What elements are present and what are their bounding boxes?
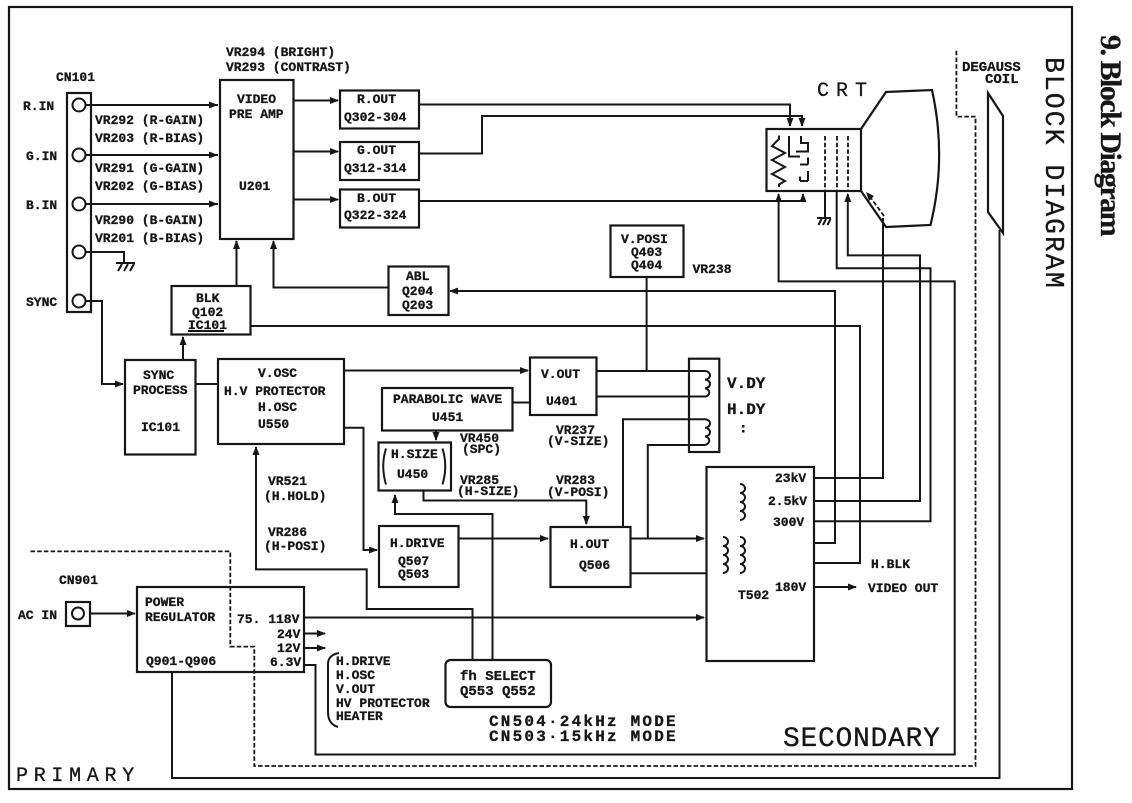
amplifier R.OUT Q302-304 [340,91,419,129]
wire V.OSC to V.OUT [344,367,529,374]
svg-text:23kV: 23kV [775,471,806,486]
CRT grid resistor [772,136,785,188]
svg-text:Q553 Q552: Q553 Q552 [460,684,536,700]
svg-text:75. 118V: 75. 118V [237,612,300,627]
block V.OUT U401 [530,358,597,416]
wire H.SIZE to H.OUT [424,491,590,526]
terminal G.IN [26,149,86,165]
wire 23kV to CRT anode [814,218,883,478]
wire 118V to T502 [304,614,705,621]
svg-text:180V: 180V [775,580,806,595]
svg-text:U451: U451 [432,410,463,425]
terminal SYNC [26,295,86,311]
svg-text:CRT: CRT [817,80,874,103]
wire R.IN to U201 [86,102,219,109]
svg-text:ABL: ABL [406,269,430,284]
svg-text:Q302-304: Q302-304 [344,110,407,125]
svg-text:Q503: Q503 [398,567,429,582]
wire SYNC PROCESS to BLK [180,336,187,360]
svg-text:H.DRIVE: H.DRIVE [390,536,445,551]
wire VIDEO OUT [814,584,857,591]
svg-text:H.BLK: H.BLK [871,557,910,572]
block PARABOLIC WAVE U451 [382,388,513,431]
coil H.DY [705,419,710,445]
svg-text:PRE AMP: PRE AMP [229,107,284,122]
wire 300V to CRT [814,191,931,521]
block H.DRIVE Q507 Q503 [379,526,459,587]
svg-text:fh SELECT: fh SELECT [460,669,536,685]
wire H.DY to H.OUT output wire [648,445,705,539]
coil V.DY [705,371,710,397]
svg-text:REGULATOR: REGULATOR [145,610,215,625]
wire U451 to H.SIZE [433,431,440,442]
transformer T502 [707,467,815,661]
svg-text:COIL: COIL [985,72,1019,88]
svg-text:H.OUT: H.OUT [570,537,609,552]
wire BLK to U201 [233,240,240,286]
CRT neck [767,129,862,191]
svg-text:2.5kV: 2.5kV [768,494,807,509]
wire AC IN to POWER REGULATOR [90,610,136,617]
wire V.OSC to H.DRIVE [344,428,378,554]
wire V.OUT to V.DY lower [597,396,706,398]
terminal R.IN [23,99,86,115]
wire SYNC to SYNC PROCESS [86,301,125,388]
connector CN101 [56,70,95,312]
connector CN901 AC IN [18,602,90,626]
svg-text:R.IN: R.IN [23,99,54,114]
CRT gun electrodes [789,136,808,181]
svg-text:VIDEO OUT: VIDEO OUT [868,581,938,596]
svg-text:U450: U450 [397,467,428,482]
block H.SIZE U450 [379,443,452,491]
svg-text:Q322-324: Q322-324 [344,208,407,223]
svg-text:BLOCK DIAGRAM: BLOCK DIAGRAM [1038,57,1068,290]
block SYNC PROCESS IC101 [125,360,196,455]
wire ABL to U201 [270,240,389,288]
svg-text:300V: 300V [773,515,804,530]
svg-text:VR286: VR286 [268,525,307,540]
svg-text:VR292 (R-GAIN): VR292 (R-GAIN) [95,113,204,128]
svg-text:BLK: BLK [196,291,220,306]
wire G.IN to U201 [86,152,219,159]
block BLK Q102 IC101 [172,286,251,335]
wire G.OUT to CRT cathode [419,116,806,154]
svg-text:H.OSC: H.OSC [258,400,297,415]
svg-text:9. Block Diagram: 9. Block Diagram [1094,35,1127,237]
wire 6.3V heater line [304,193,955,755]
wire V.OUT to V.DY upper [597,370,706,372]
svg-text:B.IN: B.IN [26,198,57,213]
coil T502 secondary A [723,537,728,573]
svg-text:CN901: CN901 [59,573,98,588]
block POWER REGULATOR Q901-Q906 [137,587,304,672]
svg-text:Q901-Q906: Q901-Q906 [146,654,216,669]
svg-text:VR294 (BRIGHT): VR294 (BRIGHT) [226,45,335,60]
wire B.IN to U201 [86,201,219,208]
block V.POSI Q403 Q404 [611,226,684,278]
ground symbol [116,263,135,271]
wire H.OUT to T502 lower [631,572,707,574]
svg-text:(H.HOLD): (H.HOLD) [264,489,326,504]
svg-text:V.OSC: V.OSC [258,366,297,381]
svg-text:PARABOLIC WAVE: PARABOLIC WAVE [393,392,502,407]
wire 12V [304,645,326,652]
svg-text:24V: 24V [277,627,301,642]
svg-text:PRIMARY: PRIMARY [16,765,140,788]
block V.OSC H.V PROTECTOR H.OSC U550 [218,359,344,444]
amplifier B.OUT Q322-324 [340,190,419,228]
svg-text:H.SIZE: H.SIZE [391,447,438,462]
svg-text:SYNC: SYNC [143,368,174,383]
anode arrow [866,192,884,216]
svg-text:POWER: POWER [145,595,184,610]
CRT funnel and face [861,90,939,227]
coil T502 secondary B [740,537,745,573]
wire H.OUT to T502 upper [631,535,706,542]
svg-text:U550: U550 [258,417,289,432]
wire 24V [304,630,326,637]
svg-text:Q404: Q404 [631,258,662,273]
svg-text:H.OSC: H.OSC [336,668,375,683]
svg-text:HEATER: HEATER [336,709,383,724]
svg-text:CN101: CN101 [56,70,95,85]
svg-text:SECONDARY: SECONDARY [783,724,941,755]
wire 2.5kV to CRT [814,193,920,501]
wire R.OUT to CRT cathode [419,105,794,128]
block ABL Q204 Q203 [389,267,449,316]
svg-text:V.DY: V.DY [727,375,766,393]
wire V.POSI to yoke wire [646,277,648,371]
svg-text:Q203: Q203 [402,298,433,313]
dashed primary boundary [31,49,976,766]
svg-text:(H-SIZE): (H-SIZE) [457,484,519,499]
svg-text:(V-SIZE): (V-SIZE) [547,434,609,449]
svg-text:G.OUT: G.OUT [357,143,396,158]
svg-text:V.OUT: V.OUT [541,367,580,382]
svg-text:VR293 (CONTRAST): VR293 (CONTRAST) [226,60,351,75]
svg-text:CN503·15kHz MODE: CN503·15kHz MODE [489,728,678,746]
deflection yoke core [689,359,719,452]
svg-text:H.DY: H.DY [727,401,766,419]
block H.OUT Q506 [551,527,631,587]
amplifier G.OUT Q312-314 [340,142,419,180]
svg-text:VIDEO: VIDEO [237,92,276,107]
svg-text:V.OUT: V.OUT [336,682,375,697]
svg-text:12V: 12V [277,641,301,656]
CRT ground [817,191,831,225]
svg-text:IC101: IC101 [141,420,180,435]
wire U201 to G.OUT [294,148,340,155]
svg-text:B.OUT: B.OUT [357,191,396,206]
terminal spare [73,246,86,259]
wire fh SELECT to V.OSC [253,446,473,660]
op-amp U201 VIDEO PRE AMP [220,80,294,239]
wire U201 to B.OUT [294,196,340,203]
wire U201 to R.OUT [294,97,340,104]
svg-text:(H-POSI): (H-POSI) [264,539,326,554]
wire U451 to V.OUT [513,402,531,404]
wire fh SELECT to H.SIZE [392,494,493,660]
svg-text:(SPC): (SPC) [462,442,501,457]
svg-text:VR202 (G-BIAS): VR202 (G-BIAS) [95,179,204,194]
svg-text:PROCESS: PROCESS [133,383,188,398]
wire BLK to H.BLK [251,326,861,563]
svg-text:VR201 (B-BIAS): VR201 (B-BIAS) [95,231,204,246]
coil T502 primary [740,484,745,520]
brace supply list [328,653,339,727]
svg-text:H.DRIVE: H.DRIVE [336,654,391,669]
wire B.OUT to CRT cathode [419,193,807,202]
svg-text:VR203 (R-BIAS): VR203 (R-BIAS) [95,131,204,146]
svg-text:Q204: Q204 [402,284,433,299]
dot [742,425,745,428]
svg-text:U201: U201 [239,179,270,194]
svg-text:Q312-314: Q312-314 [344,161,407,176]
svg-text:VR238: VR238 [693,262,732,277]
wire H.DY to H.OUT top [623,419,705,527]
svg-text:H.V PROTECTOR: H.V PROTECTOR [224,384,326,399]
svg-text:G.IN: G.IN [26,149,57,164]
CRT heater pins dashed [824,136,826,190]
svg-text:6.3V: 6.3V [270,655,301,670]
svg-text:(V-POSI): (V-POSI) [547,485,609,500]
svg-text:R.OUT: R.OUT [357,92,396,107]
wire flyback to ABL [449,288,835,544]
svg-text:U401: U401 [546,394,577,409]
block fh SELECT Q553 Q552 [446,660,552,707]
wire SYNC PROCESS to V.OSC [196,383,219,385]
wire primary to degauss [172,230,1000,778]
terminal B.IN [26,198,86,214]
svg-text:Q506: Q506 [579,558,610,573]
svg-text:T502: T502 [738,588,769,603]
svg-text:VR521: VR521 [268,474,307,489]
wire spare to ground [86,252,125,262]
svg-text:SYNC: SYNC [26,295,57,310]
svg-text:VR290 (B-GAIN): VR290 (B-GAIN) [95,213,204,228]
svg-text:AC IN: AC IN [18,608,57,623]
degauss coil [988,93,1003,233]
wire H.DRIVE to H.OUT [459,535,550,542]
svg-text:VR291 (G-GAIN): VR291 (G-GAIN) [95,161,204,176]
